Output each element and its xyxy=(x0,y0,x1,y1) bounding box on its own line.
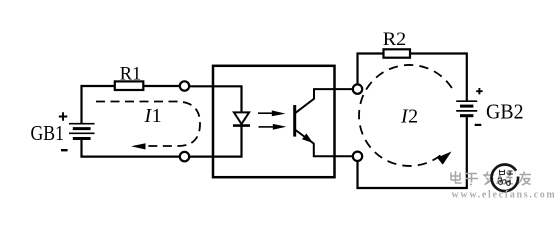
svg-text:R1: R1 xyxy=(120,64,142,85)
svg-text:www.elecfans.com: www.elecfans.com xyxy=(452,190,557,201)
svg-text:I2: I2 xyxy=(400,106,418,128)
svg-text:I1: I1 xyxy=(144,105,162,127)
svg-text:GB2: GB2 xyxy=(486,100,524,124)
svg-text:R2: R2 xyxy=(383,29,407,50)
svg-text:GB1: GB1 xyxy=(31,121,65,145)
